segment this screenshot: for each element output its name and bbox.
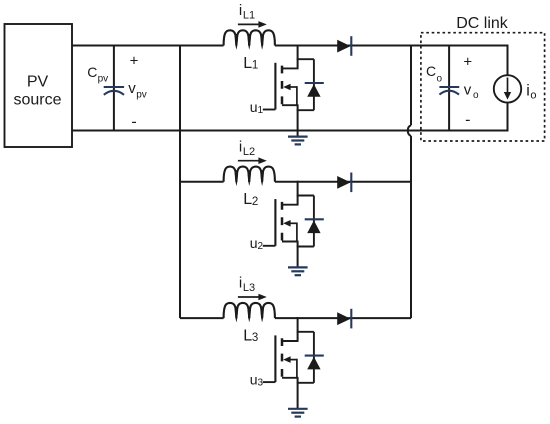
ground (phase 2) [288,267,308,275]
svg-text:2: 2 [252,196,258,208]
wire: left bus feeding L2 and L3 [179,45,181,319]
svg-text:u: u [250,235,258,251]
svg-text:pv: pv [136,90,147,101]
svg-text:v: v [464,82,472,99]
svg-text:L: L [243,55,252,72]
diode D2 [337,173,351,193]
svg-text:3: 3 [258,377,264,388]
label iL1 current arrow [238,2,267,28]
svg-text:o: o [437,74,443,85]
current source io [494,75,521,102]
svg-text:u: u [250,371,258,387]
svg-text:-: - [465,111,470,128]
inductor L2 [224,167,275,187]
svg-text:L1: L1 [243,10,255,22]
transistor Q2 (MOSFET, gate u2) [263,181,299,246]
ground (phase 3) [288,409,308,417]
PV source box [5,24,73,147]
ground (phase 1) [288,137,308,145]
svg-text:L2: L2 [243,146,255,158]
svg-text:u: u [250,99,258,115]
svg-text:C: C [87,64,97,80]
wire: top rail from PV source through L1 and D1 to DC link [72,45,224,47]
wire: Q1 source to ground [297,105,299,136]
inductor L3 [224,303,275,323]
svg-text:+: + [463,54,472,71]
wire: right bus collecting D2 and D3 outputs (hops over bottom rail) [410,45,412,126]
wire: phase 3 rail from left bus to inductor [180,317,224,319]
svg-text:o: o [473,90,479,101]
svg-text:pv: pv [98,74,109,85]
capacitor Co [439,86,459,88]
svg-text:DC link: DC link [456,15,509,32]
diode D1 [337,36,351,56]
svg-text:i: i [526,83,530,100]
wire: Q3 source to ground [297,378,299,409]
wire: current source top lead [507,45,509,76]
diode D3 [337,309,351,329]
label iL2 current arrow [238,138,267,164]
svg-text:1: 1 [258,105,264,116]
transistor Q3 (MOSFET, gate u3) [263,317,299,382]
svg-text:i: i [239,275,242,292]
svg-text:-: - [131,113,136,130]
svg-text:o: o [530,89,536,101]
wire: Q2 source to ground [297,242,299,268]
label iL3 current arrow [238,275,267,301]
wire: bottom rail from PV source to DC link [72,130,508,132]
wire: phase 2 rail from left bus to inductor [180,181,224,183]
svg-text:L: L [243,328,252,345]
svg-text:L: L [243,191,252,208]
svg-text:C: C [426,63,436,79]
svg-text:3: 3 [252,332,258,344]
svg-text:i: i [239,138,242,155]
svg-text:+: + [130,53,139,70]
svg-text:1: 1 [252,60,258,72]
transistor Q1 (MOSFET, gate u1) [263,45,299,110]
DC link dashed boundary [421,33,545,141]
wire: phase 3 rail from inductor through D3 to right bus [275,317,411,319]
inductor L1 [224,30,275,50]
svg-text:2: 2 [258,241,264,252]
svg-text:L3: L3 [243,282,255,294]
svg-text:source: source [13,91,61,108]
body diode of Q3 [297,332,324,383]
body diode of Q1 [297,59,324,110]
wire: current source bottom lead [507,102,509,131]
capacitor Cpv [104,86,124,88]
wire: Co branch vertical [448,46,450,131]
svg-text:i: i [239,2,242,19]
body diode of Q2 [297,196,324,247]
svg-text:v: v [128,80,136,97]
wire: phase 2 rail from inductor through D2 to right bus [275,181,411,183]
svg-text:PV: PV [27,74,49,91]
wire: Cpv branch vertical [113,46,115,131]
